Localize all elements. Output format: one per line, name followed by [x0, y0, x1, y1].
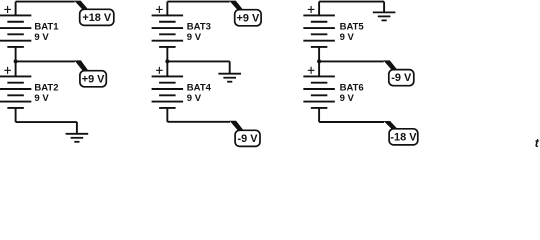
wire top rail col2: [167, 1, 229, 3]
wire bottom rail col3: [319, 121, 384, 123]
wire top rail col1: [16, 1, 75, 3]
net flag wedge to label +9 V: [74, 60, 89, 72]
net flag wedge to label +9 V: [229, 1, 244, 12]
wire BAT4 - terminal down: [166, 108, 168, 122]
net label -18V -18 V: [389, 129, 418, 145]
battery BAT1 9 V: [0, 15, 31, 47]
svg-text:+18 V: +18 V: [82, 12, 111, 24]
svg-text:-18 V: -18 V: [390, 131, 417, 143]
ground GND col2: [218, 61, 241, 81]
svg-text:9 V: 9 V: [187, 93, 202, 104]
net label +9V +9 V: [80, 71, 106, 87]
svg-text:9 V: 9 V: [34, 32, 49, 43]
svg-text:BAT5: BAT5: [340, 21, 365, 32]
wire bottom rail col1 to ground: [16, 121, 77, 123]
junction node col3 mid: [317, 59, 321, 63]
wire BAT3 - to BAT4 +: [166, 47, 168, 76]
battery BAT4 9 V: [152, 76, 184, 108]
svg-text:+9 V: +9 V: [82, 73, 105, 85]
wire BAT5 + terminal up: [318, 2, 320, 16]
junction node col2 mid: [165, 59, 169, 63]
svg-text:BAT2: BAT2: [34, 82, 58, 93]
wire mid rail col3: [319, 60, 384, 62]
svg-text:BAT3: BAT3: [187, 21, 211, 32]
wire BAT2 - terminal down: [15, 108, 17, 122]
wire BAT3 + terminal up: [166, 2, 168, 16]
ground GND col1: [66, 122, 89, 142]
wire BAT1 + terminal up: [15, 2, 17, 16]
svg-text:9 V: 9 V: [340, 32, 355, 43]
wire top rail col3 to ground: [319, 1, 384, 3]
wire BAT1 - to BAT2 +: [15, 47, 17, 76]
battery BAT5 9 V: [303, 15, 335, 47]
wire BAT6 - terminal down: [318, 108, 320, 122]
net label +9V +9 V: [235, 10, 261, 26]
svg-text:9 V: 9 V: [340, 93, 355, 104]
svg-text:-9 V: -9 V: [238, 133, 259, 145]
junction node col1 mid: [14, 59, 18, 63]
plus sign of BAT5: [308, 6, 315, 13]
svg-text:BAT6: BAT6: [340, 82, 364, 93]
plus sign of BAT6: [308, 67, 315, 74]
net label -9V -9 V: [235, 130, 260, 146]
wire mid rail col1: [16, 60, 75, 62]
plus sign of BAT2: [4, 67, 11, 74]
svg-text:BAT1: BAT1: [34, 21, 59, 32]
ground GND col3: [373, 2, 396, 21]
svg-text:9 V: 9 V: [34, 93, 49, 104]
svg-text:BAT4: BAT4: [187, 82, 212, 93]
net flag wedge to label -9 V: [383, 60, 398, 71]
net flag wedge to label -18 V: [384, 121, 399, 131]
net flag wedge to label +18 V: [74, 1, 89, 12]
battery BAT2 9 V: [0, 76, 31, 108]
plus sign of BAT1: [4, 6, 11, 13]
plus sign of BAT3: [156, 6, 163, 13]
wire BAT5 - to BAT6 +: [318, 47, 320, 76]
svg-text:+9 V: +9 V: [237, 12, 260, 24]
net label +18V +18 V: [80, 9, 114, 25]
wire bottom rail col2: [167, 121, 230, 123]
battery BAT3 9 V: [152, 15, 184, 47]
battery BAT6 9 V: [303, 76, 335, 108]
plus sign of BAT4: [156, 67, 163, 74]
wire mid rail col2 to ground: [167, 60, 229, 62]
net label -9V -9 V: [389, 70, 414, 86]
svg-text:-9 V: -9 V: [391, 72, 412, 84]
net flag wedge to label -9 V: [230, 121, 245, 132]
svg-text:9 V: 9 V: [187, 32, 202, 43]
